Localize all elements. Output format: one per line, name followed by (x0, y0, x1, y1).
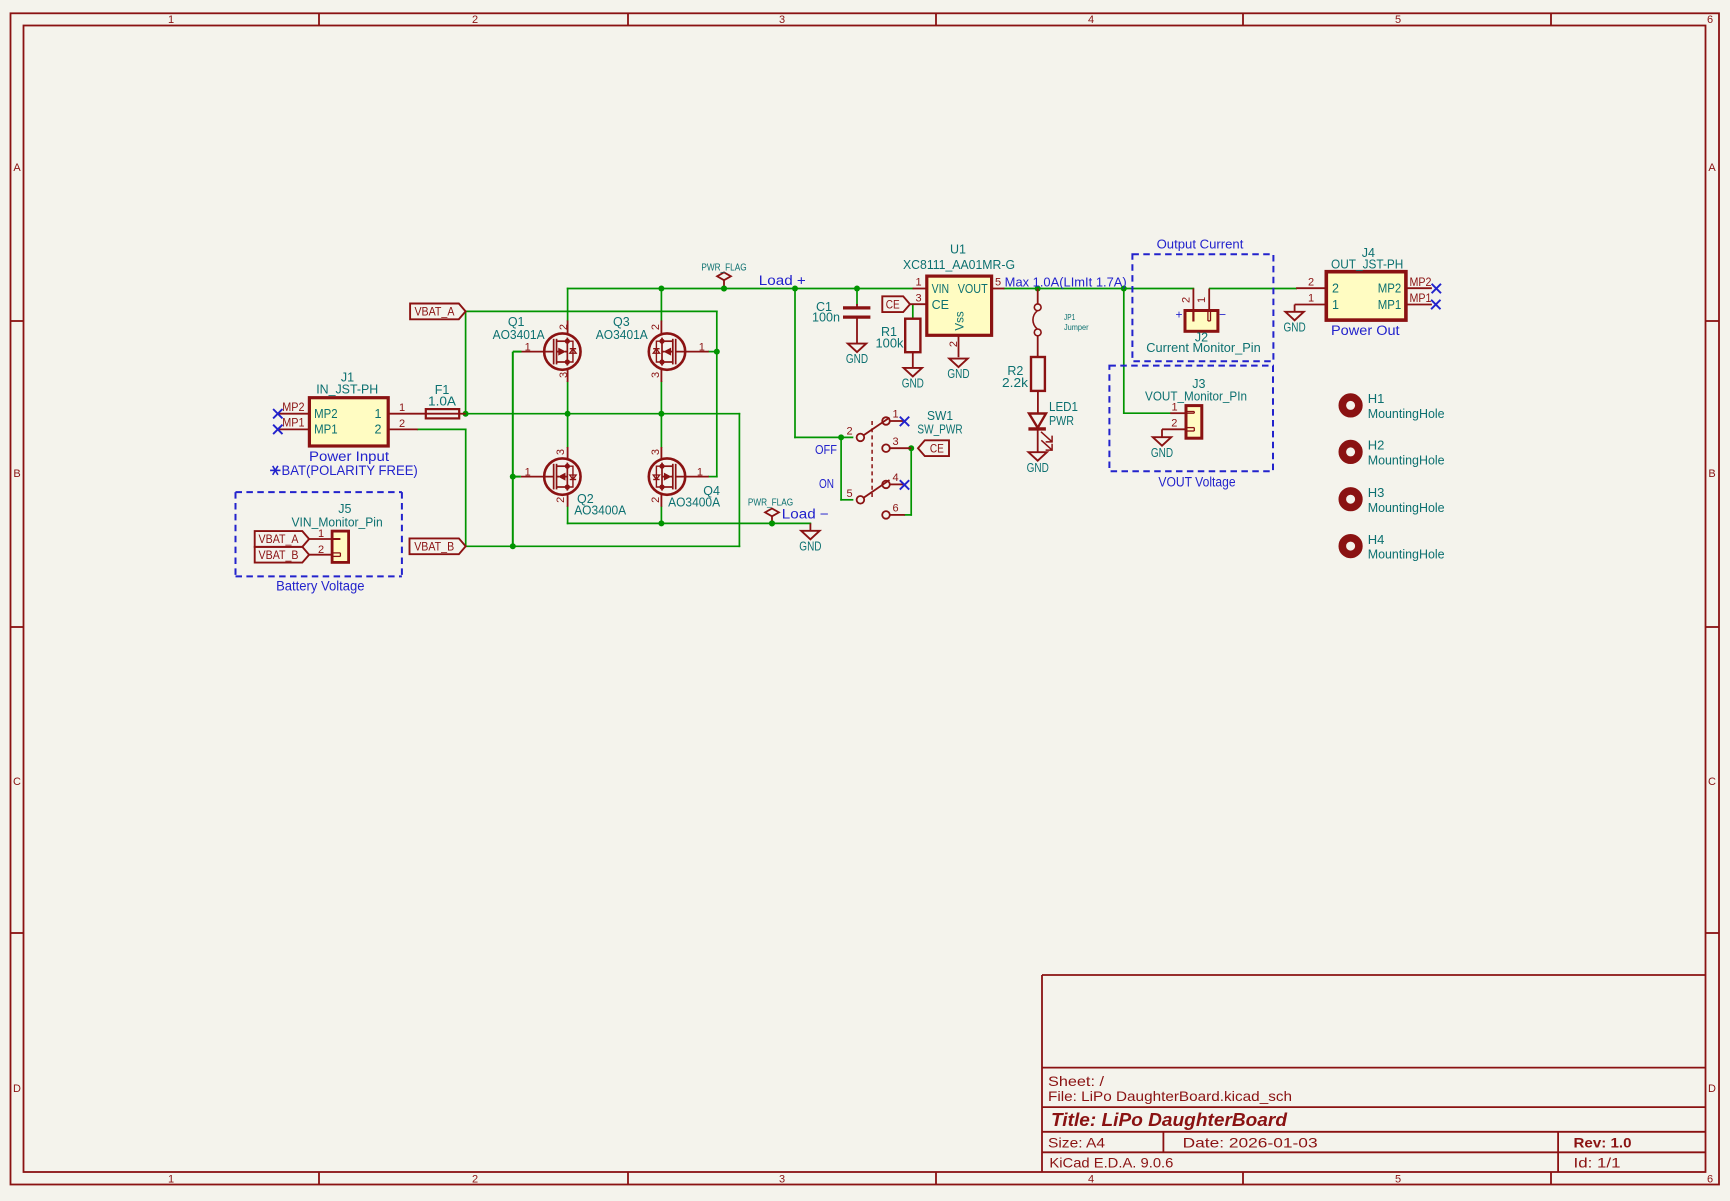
svg-text:3: 3 (915, 292, 921, 304)
svg-text:MP2: MP2 (1410, 277, 1432, 289)
svg-text:VOUT_Monitor_PIn: VOUT_Monitor_PIn (1145, 389, 1247, 403)
svg-text:GND: GND (1151, 446, 1173, 460)
svg-text:Id: 1/1: Id: 1/1 (1574, 1155, 1621, 1171)
svg-text:1: 1 (697, 467, 703, 479)
svg-text:H3: H3 (1368, 485, 1385, 500)
svg-text:3: 3 (650, 449, 662, 455)
svg-text:5: 5 (846, 488, 852, 500)
svg-text:1: 1 (168, 1173, 174, 1185)
svg-text:MP1: MP1 (1410, 293, 1432, 305)
svg-text:B: B (13, 468, 20, 480)
svg-text:1: 1 (1196, 297, 1208, 303)
svg-text:D: D (13, 1083, 21, 1095)
svg-text:Load −: Load − (782, 507, 829, 522)
svg-text:File: LiPo DaughterBoard.kicad: File: LiPo DaughterBoard.kicad_sch (1048, 1088, 1292, 1104)
svg-text:AO3400A: AO3400A (668, 496, 721, 510)
svg-text:2: 2 (846, 426, 852, 438)
svg-text:Q3: Q3 (613, 315, 630, 329)
svg-text:JP1: JP1 (1064, 313, 1076, 322)
svg-text:OUT_JST-PH: OUT_JST-PH (1331, 258, 1403, 272)
svg-text:2: 2 (375, 423, 382, 437)
svg-text:100k: 100k (876, 337, 905, 351)
svg-text:3: 3 (779, 14, 785, 26)
svg-text:Power Out: Power Out (1331, 323, 1400, 338)
svg-text:Power Input: Power Input (309, 449, 389, 464)
svg-text:GND: GND (1284, 320, 1306, 334)
svg-text:1: 1 (1171, 401, 1177, 413)
svg-text:MP2: MP2 (1378, 282, 1402, 296)
svg-text:5: 5 (1395, 1173, 1401, 1185)
svg-text:6: 6 (1707, 1173, 1713, 1185)
svg-text:4: 4 (1088, 14, 1094, 26)
svg-text:VBAT_B: VBAT_B (414, 542, 454, 554)
svg-text:1: 1 (525, 467, 531, 479)
svg-text:2: 2 (318, 544, 324, 556)
svg-text:VBAT_A: VBAT_A (259, 534, 299, 546)
svg-text:2: 2 (1308, 276, 1314, 288)
svg-text:2.2k: 2.2k (1002, 376, 1029, 390)
svg-text:Size: A4: Size: A4 (1048, 1135, 1105, 1151)
svg-text:1.0A: 1.0A (428, 395, 457, 409)
svg-text:+: + (1175, 307, 1182, 321)
svg-text:GND: GND (1027, 461, 1049, 475)
svg-text:BAT(POLARITY FREE): BAT(POLARITY FREE) (282, 463, 418, 478)
svg-text:H4: H4 (1368, 532, 1385, 547)
svg-text:Max 1.0A(LImIt 1.7A): Max 1.0A(LImIt 1.7A) (1005, 276, 1127, 290)
svg-text:1: 1 (525, 342, 531, 354)
svg-text:Jumper: Jumper (1064, 323, 1089, 332)
svg-text:GND: GND (902, 377, 924, 391)
svg-text:OFF: OFF (815, 442, 837, 457)
svg-text:D: D (1708, 1083, 1716, 1095)
svg-text:VIN_Monitor_Pin: VIN_Monitor_Pin (292, 515, 383, 529)
svg-text:AO3400A: AO3400A (574, 504, 627, 518)
svg-text:MP1: MP1 (282, 418, 304, 430)
svg-text:Vss: Vss (955, 311, 967, 330)
svg-text:−: − (1219, 307, 1226, 321)
svg-text:GND: GND (799, 539, 821, 553)
svg-text:2: 2 (472, 14, 478, 26)
svg-text:CE: CE (932, 298, 949, 312)
svg-text:Title: LiPo DaughterBoard: Title: LiPo DaughterBoard (1051, 1109, 1288, 1130)
svg-text:VOUT Voltage: VOUT Voltage (1158, 475, 1235, 490)
svg-text:C: C (1708, 776, 1716, 788)
svg-text:3: 3 (779, 1173, 785, 1185)
svg-text:1: 1 (1308, 293, 1314, 305)
svg-text:MountingHole: MountingHole (1368, 500, 1445, 515)
svg-text:MountingHole: MountingHole (1368, 453, 1445, 468)
svg-text:1: 1 (699, 342, 705, 354)
svg-text:VBAT_B: VBAT_B (259, 550, 299, 562)
svg-text:AO3401A: AO3401A (493, 328, 546, 342)
svg-text:Battery Voltage: Battery Voltage (276, 578, 364, 593)
svg-text:1: 1 (1332, 298, 1339, 312)
svg-text:LED1: LED1 (1049, 400, 1078, 414)
svg-text:GND: GND (846, 352, 868, 366)
svg-text:AO3401A: AO3401A (596, 328, 649, 342)
svg-text:4: 4 (893, 472, 899, 484)
svg-text:H1: H1 (1368, 391, 1385, 406)
svg-text:VIN: VIN (932, 282, 950, 296)
svg-text:H2: H2 (1368, 438, 1385, 453)
svg-text:6: 6 (893, 503, 899, 515)
svg-text:Date: 2026-01-03: Date: 2026-01-03 (1183, 1135, 1318, 1151)
svg-text:1: 1 (318, 528, 324, 540)
svg-text:Rev: 1.0: Rev: 1.0 (1574, 1134, 1632, 1150)
svg-text:ON: ON (819, 476, 834, 491)
svg-text:SW1: SW1 (927, 409, 953, 423)
svg-text:VOUT: VOUT (958, 282, 988, 296)
svg-text:2: 2 (472, 1173, 478, 1185)
svg-text:2: 2 (558, 324, 570, 330)
svg-text:MP2: MP2 (282, 402, 304, 414)
svg-text:KiCad E.D.A. 9.0.6: KiCad E.D.A. 9.0.6 (1049, 1155, 1173, 1171)
svg-text:Sheet: /: Sheet: / (1048, 1073, 1104, 1089)
svg-text:MP1: MP1 (1378, 298, 1402, 312)
svg-text:GND: GND (947, 367, 969, 381)
svg-text:2: 2 (399, 418, 405, 430)
svg-text:A: A (1708, 162, 1716, 174)
svg-text:VBAT_A: VBAT_A (414, 307, 454, 319)
svg-text:MP1: MP1 (314, 423, 338, 437)
svg-text:CE: CE (930, 443, 944, 455)
svg-text:3: 3 (893, 436, 899, 448)
svg-text:2: 2 (555, 497, 567, 503)
svg-text:1: 1 (375, 407, 382, 421)
svg-text:PWR_FLAG: PWR_FLAG (701, 262, 746, 273)
svg-text:A: A (13, 162, 21, 174)
svg-text:4: 4 (1088, 1173, 1094, 1185)
svg-text:1: 1 (893, 409, 899, 421)
svg-text:MountingHole: MountingHole (1368, 547, 1445, 562)
svg-text:Current Monitor_Pin: Current Monitor_Pin (1146, 341, 1261, 355)
svg-text:C: C (13, 776, 21, 788)
svg-text:CE: CE (886, 299, 900, 311)
svg-text:IN_JST-PH: IN_JST-PH (316, 382, 378, 396)
svg-text:2: 2 (650, 324, 662, 330)
svg-text:2: 2 (1181, 297, 1193, 303)
svg-text:1: 1 (915, 277, 921, 289)
svg-text:1: 1 (168, 14, 174, 26)
svg-text:5: 5 (995, 277, 1001, 289)
svg-text:2: 2 (948, 341, 960, 347)
svg-text:2: 2 (650, 497, 662, 503)
svg-text:3: 3 (558, 372, 570, 378)
svg-text:2: 2 (1332, 282, 1339, 296)
svg-text:100n: 100n (812, 311, 840, 325)
svg-text:6: 6 (1707, 14, 1713, 26)
svg-text:5: 5 (1395, 14, 1401, 26)
svg-text:MP2: MP2 (314, 407, 338, 421)
svg-text:MountingHole: MountingHole (1368, 406, 1445, 421)
svg-text:Output Current: Output Current (1157, 236, 1244, 251)
svg-text:1: 1 (399, 402, 405, 414)
svg-text:3: 3 (650, 372, 662, 378)
svg-text:PWR: PWR (1049, 414, 1074, 428)
svg-text:Load +: Load + (759, 273, 806, 288)
svg-text:Q1: Q1 (508, 315, 525, 329)
svg-text:2: 2 (1171, 418, 1177, 430)
svg-text:3: 3 (555, 449, 567, 455)
svg-text:XC8111_AA01MR-G: XC8111_AA01MR-G (903, 258, 1015, 272)
svg-text:SW_PWR: SW_PWR (917, 423, 962, 437)
svg-text:J5: J5 (338, 502, 351, 516)
svg-text:B: B (1708, 468, 1715, 480)
svg-text:U1: U1 (950, 243, 966, 257)
